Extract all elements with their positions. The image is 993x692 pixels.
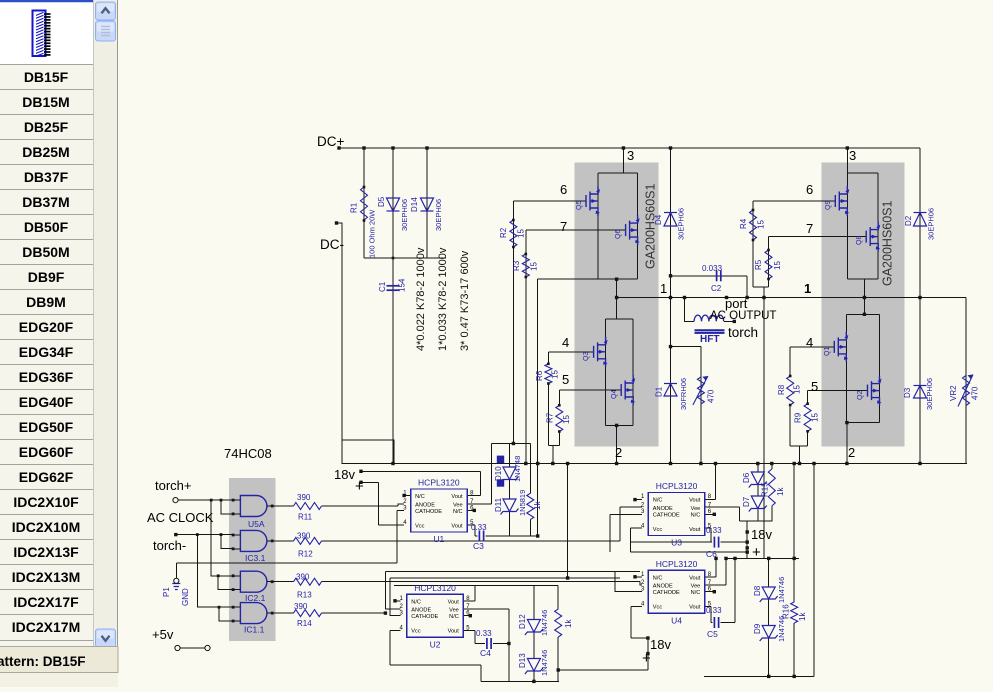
svg-text:1N4746: 1N4746: [540, 610, 549, 636]
svg-text:6: 6: [560, 182, 567, 197]
svg-text:N/C: N/C: [453, 509, 463, 515]
svg-text:15: 15: [530, 262, 539, 271]
svg-text:U3: U3: [671, 538, 682, 548]
svg-text:15: 15: [517, 229, 526, 238]
svg-text:15: 15: [793, 385, 802, 394]
svg-text:HCPL3120: HCPL3120: [656, 559, 698, 569]
svg-text:1N5819: 1N5819: [518, 490, 527, 516]
svg-text:D10: D10: [494, 466, 503, 481]
svg-text:7: 7: [560, 219, 567, 234]
svg-text:4: 4: [562, 335, 569, 350]
svg-text:154: 154: [398, 278, 407, 292]
svg-text:Vout: Vout: [689, 527, 701, 533]
svg-text:Vee: Vee: [691, 506, 701, 512]
svg-text:390: 390: [296, 573, 310, 582]
svg-text:Q2: Q2: [857, 391, 864, 400]
svg-text:attern: DB15F: attern: DB15F: [0, 654, 86, 669]
svg-text:1N4746: 1N4746: [777, 577, 786, 603]
svg-text:5: 5: [562, 372, 569, 387]
svg-text:HCPL3120: HCPL3120: [656, 481, 698, 491]
svg-text:DB50M: DB50M: [22, 244, 69, 260]
svg-text:D13: D13: [518, 653, 527, 668]
svg-text:C4: C4: [480, 648, 491, 658]
svg-text:IDC2X10M: IDC2X10M: [12, 519, 80, 535]
svg-text:R11: R11: [298, 513, 313, 522]
svg-text:470: 470: [707, 389, 716, 403]
svg-text:R7: R7: [546, 412, 555, 423]
svg-text:C6: C6: [706, 549, 717, 559]
svg-text:VR2: VR2: [949, 385, 958, 401]
svg-text:4*0.022 K78-2 1000v: 4*0.022 K78-2 1000v: [415, 247, 427, 351]
svg-text:ANODE: ANODE: [415, 502, 435, 508]
svg-text:R3: R3: [512, 260, 521, 271]
svg-text:R14: R14: [297, 619, 312, 628]
svg-text:CATHODE: CATHODE: [653, 512, 680, 518]
svg-text:2: 2: [615, 445, 622, 460]
svg-text:18v: 18v: [751, 527, 772, 542]
svg-text:D5: D5: [377, 196, 386, 207]
svg-text:IDC2X17M: IDC2X17M: [12, 619, 80, 635]
svg-text:Vout: Vout: [689, 498, 701, 504]
svg-text:R8: R8: [777, 384, 786, 395]
svg-text:3: 3: [627, 148, 634, 163]
svg-text:GA200HS60S1: GA200HS60S1: [644, 183, 658, 269]
svg-text:AC CLOCK: AC CLOCK: [147, 510, 214, 525]
svg-text:GND: GND: [181, 588, 190, 606]
svg-text:DC-: DC-: [320, 237, 344, 252]
svg-text:470: 470: [971, 386, 980, 400]
svg-text:EDG20F: EDG20F: [19, 319, 74, 335]
svg-text:Vee: Vee: [453, 502, 463, 508]
svg-text:D11: D11: [494, 497, 503, 512]
svg-text:Vcc: Vcc: [653, 527, 663, 533]
svg-text:U1: U1: [433, 534, 444, 544]
svg-text:P1: P1: [162, 587, 171, 597]
svg-text:Q1: Q1: [824, 347, 831, 356]
svg-text:30EPH06: 30EPH06: [400, 199, 409, 231]
svg-text:15: 15: [811, 413, 820, 422]
svg-text:30EPH06: 30EPH06: [927, 208, 936, 240]
svg-text:0.033: 0.033: [702, 264, 723, 273]
svg-text:30EPH06: 30EPH06: [925, 378, 934, 410]
svg-text:R6: R6: [535, 370, 544, 381]
svg-text:D1: D1: [655, 386, 664, 397]
svg-text:15: 15: [773, 261, 782, 270]
svg-text:3: 3: [849, 148, 856, 163]
svg-text:D9: D9: [753, 623, 762, 634]
svg-text:30EPH06: 30EPH06: [677, 208, 686, 240]
svg-text:DB15F: DB15F: [24, 69, 69, 85]
svg-text:DB37F: DB37F: [24, 169, 69, 185]
svg-text:Vcc: Vcc: [653, 605, 663, 611]
svg-text:Vee: Vee: [449, 608, 459, 614]
svg-text:7: 7: [806, 221, 813, 236]
svg-text:1k: 1k: [533, 501, 542, 510]
svg-text:D2: D2: [904, 215, 913, 226]
svg-text:1N4746: 1N4746: [540, 650, 549, 676]
svg-text:4: 4: [806, 335, 813, 350]
svg-text:2: 2: [848, 445, 855, 460]
svg-text:6: 6: [806, 182, 813, 197]
svg-text:U2: U2: [430, 639, 441, 649]
svg-text:DC+: DC+: [317, 134, 344, 149]
svg-text:C2: C2: [711, 284, 722, 293]
svg-text:0.33: 0.33: [706, 606, 722, 615]
svg-text:DB25F: DB25F: [24, 119, 69, 135]
svg-text:15: 15: [757, 220, 766, 229]
svg-text:torch-: torch-: [153, 538, 186, 553]
svg-text:1k: 1k: [776, 487, 785, 496]
svg-text:HCPL3120: HCPL3120: [418, 478, 460, 488]
svg-text:15: 15: [562, 415, 571, 424]
svg-text:IDC2X17F: IDC2X17F: [13, 594, 79, 610]
svg-text:390: 390: [294, 602, 308, 611]
svg-text:EDG34F: EDG34F: [19, 344, 74, 360]
svg-text:U5A: U5A: [248, 519, 265, 529]
svg-text:EDG36F: EDG36F: [19, 369, 74, 385]
svg-text:CATHODE: CATHODE: [653, 590, 680, 596]
svg-text:Q6: Q6: [615, 230, 622, 239]
svg-text:+: +: [752, 544, 761, 561]
svg-text:N/C: N/C: [653, 575, 663, 581]
svg-text:N/C: N/C: [691, 512, 701, 518]
svg-text:R9: R9: [794, 412, 803, 423]
svg-text:EDG50F: EDG50F: [19, 419, 74, 435]
svg-text:CATHODE: CATHODE: [415, 509, 442, 515]
svg-text:IDC2X13M: IDC2X13M: [12, 569, 80, 585]
svg-text:C1: C1: [378, 281, 387, 292]
svg-text:DB9M: DB9M: [26, 294, 66, 310]
svg-text:Q5: Q5: [576, 201, 583, 210]
svg-text:R4: R4: [739, 218, 748, 229]
svg-text:EDG40F: EDG40F: [19, 394, 74, 410]
svg-text:N/C: N/C: [449, 614, 459, 620]
svg-text:390: 390: [297, 493, 311, 502]
svg-text:R16: R16: [782, 604, 791, 619]
svg-text:DB9F: DB9F: [28, 269, 65, 285]
svg-text:N/C: N/C: [653, 498, 663, 504]
svg-text:Q4: Q4: [611, 390, 618, 399]
svg-text:1*0.033 K78-2 1000v: 1*0.033 K78-2 1000v: [437, 247, 449, 351]
svg-text:N/C: N/C: [411, 599, 421, 605]
svg-text:100 Ohm 20W: 100 Ohm 20W: [368, 209, 377, 258]
svg-text:D8: D8: [753, 585, 762, 596]
svg-text:+5v: +5v: [152, 627, 174, 642]
svg-text:D4: D4: [654, 214, 663, 225]
svg-text:IC1.1: IC1.1: [244, 625, 265, 635]
svg-text:R13: R13: [297, 591, 312, 600]
svg-text:Q9: Q9: [825, 201, 832, 210]
svg-text:N/C: N/C: [415, 494, 425, 500]
svg-text:EDG62F: EDG62F: [19, 469, 74, 485]
svg-text:30EPH06: 30EPH06: [434, 199, 443, 231]
svg-text:5: 5: [811, 379, 818, 394]
svg-text:1: 1: [660, 281, 667, 296]
svg-text:Vcc: Vcc: [411, 629, 421, 635]
svg-text:Vout: Vout: [451, 494, 463, 500]
svg-text:3* 0.47 K73-17 600v: 3* 0.47 K73-17 600v: [459, 250, 471, 351]
svg-text:+: +: [355, 478, 364, 495]
svg-text:ANODE: ANODE: [411, 608, 431, 614]
svg-text:Vout: Vout: [448, 599, 460, 605]
svg-text:DB15M: DB15M: [22, 94, 69, 110]
svg-text:R5: R5: [754, 259, 763, 270]
svg-text:EDG60F: EDG60F: [19, 444, 74, 460]
svg-text:D7: D7: [742, 496, 751, 507]
svg-text:D14: D14: [410, 197, 419, 212]
svg-text:R2: R2: [499, 227, 508, 238]
svg-text:Vout: Vout: [689, 605, 701, 611]
svg-text:ANODE: ANODE: [653, 506, 673, 512]
svg-text:HCPL3120: HCPL3120: [414, 583, 456, 593]
svg-text:R12: R12: [298, 550, 313, 559]
svg-text:IC3.1: IC3.1: [245, 553, 266, 563]
svg-text:port: port: [725, 296, 748, 311]
svg-text:IDC2X13F: IDC2X13F: [13, 544, 79, 560]
svg-text:Vout: Vout: [689, 575, 701, 581]
svg-text:Vee: Vee: [691, 584, 701, 590]
svg-text:0.33: 0.33: [706, 526, 722, 535]
svg-text:CATHODE: CATHODE: [411, 614, 438, 620]
svg-text:Vout: Vout: [451, 523, 463, 529]
svg-text:18v: 18v: [334, 467, 355, 482]
svg-text:R1: R1: [350, 202, 359, 213]
svg-text:U4: U4: [671, 615, 682, 625]
svg-text:C5: C5: [707, 629, 718, 639]
svg-text:DB50F: DB50F: [24, 219, 69, 235]
svg-text:Vcc: Vcc: [415, 523, 425, 529]
svg-text:15: 15: [551, 370, 560, 379]
svg-text:GA200HS60S1: GA200HS60S1: [881, 200, 895, 286]
svg-text:+: +: [642, 650, 651, 667]
svg-text:Vout: Vout: [448, 629, 460, 635]
svg-text:0.33: 0.33: [471, 523, 487, 532]
svg-text:DB25M: DB25M: [22, 144, 69, 160]
svg-text:1: 1: [804, 281, 811, 296]
svg-text:Q3: Q3: [583, 352, 590, 361]
svg-text:HFT: HFT: [700, 334, 719, 345]
svg-text:D6: D6: [742, 472, 751, 483]
svg-text:74HC08: 74HC08: [224, 446, 272, 461]
svg-text:18v: 18v: [650, 637, 671, 652]
svg-text:ANODE: ANODE: [653, 584, 673, 590]
svg-text:N/C: N/C: [691, 590, 701, 596]
svg-text:D3: D3: [903, 387, 912, 398]
svg-text:C3: C3: [473, 541, 484, 551]
svg-text:torch+: torch+: [155, 478, 192, 493]
svg-text:390: 390: [297, 532, 311, 541]
svg-text:1k: 1k: [798, 612, 807, 621]
svg-text:DB37M: DB37M: [22, 194, 69, 210]
svg-text:D12: D12: [518, 614, 527, 629]
svg-text:30FRH06: 30FRH06: [679, 378, 688, 410]
svg-text:Q8: Q8: [856, 236, 863, 245]
svg-text:1N4748: 1N4748: [513, 456, 522, 482]
svg-text:IC2.1: IC2.1: [245, 593, 266, 603]
svg-text:R15: R15: [761, 482, 770, 497]
svg-text:1k: 1k: [564, 619, 573, 628]
svg-text:IDC2X10F: IDC2X10F: [13, 494, 79, 510]
svg-text:torch: torch: [728, 325, 758, 340]
svg-text:0.33: 0.33: [476, 629, 492, 638]
svg-text:AC OUTPUT: AC OUTPUT: [710, 310, 776, 322]
